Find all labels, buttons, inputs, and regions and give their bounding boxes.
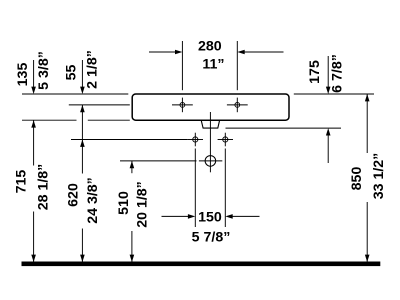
washbasin outline xyxy=(132,94,289,120)
svg-text:20 1/8”: 20 1/8” xyxy=(135,181,151,228)
svg-text:510: 510 xyxy=(116,191,132,215)
dimension 150 bottom xyxy=(162,215,189,217)
extension line fixing holes xyxy=(71,139,188,141)
fixing hole right xyxy=(218,139,233,141)
svg-text:55: 55 xyxy=(64,65,80,81)
svg-text:175: 175 xyxy=(307,60,323,84)
svg-text:5 3/8”: 5 3/8” xyxy=(36,51,52,90)
svg-text:28 1/8”: 28 1/8” xyxy=(36,164,52,211)
extension line basin top right xyxy=(294,93,374,95)
svg-text:5 7/8”: 5 7/8” xyxy=(192,230,231,246)
drain centerline xyxy=(209,112,211,172)
dimension 620 line xyxy=(81,105,83,174)
dimension 280 extension lines xyxy=(181,41,183,90)
svg-text:715: 715 xyxy=(14,170,30,194)
dimension 55 upper leader xyxy=(81,60,83,87)
svg-text:620: 620 xyxy=(66,183,82,207)
svg-text:150: 150 xyxy=(198,210,222,226)
svg-text:33 1/2”: 33 1/2” xyxy=(371,153,387,200)
drain circle xyxy=(205,156,216,167)
svg-text:6 7/8”: 6 7/8” xyxy=(330,54,346,93)
svg-text:850: 850 xyxy=(349,167,365,191)
extension line basin bottom left xyxy=(22,119,77,121)
svg-text:2 1/8”: 2 1/8” xyxy=(85,50,101,89)
svg-text:135: 135 xyxy=(15,63,31,87)
dimension 135 upper leader xyxy=(33,60,35,87)
fixing hole left xyxy=(188,139,203,141)
faucet hole crosshair right xyxy=(227,104,248,106)
faucet hole crosshair left xyxy=(172,104,193,106)
extension lines below fixing holes for 150 dim xyxy=(194,149,196,228)
dimension 175 right xyxy=(327,56,329,87)
extension line basin top left xyxy=(22,93,128,95)
floor line xyxy=(22,262,380,266)
dimension 280 leaders and arrows xyxy=(149,51,175,53)
svg-text:280: 280 xyxy=(198,38,222,54)
dimension 715 line xyxy=(31,120,36,127)
svg-text:24 3/8”: 24 3/8” xyxy=(85,177,101,224)
dimension 850 line xyxy=(365,94,370,101)
extension line notch bottom right xyxy=(226,127,342,129)
extension line tap deck xyxy=(69,104,130,106)
dimension 510 line xyxy=(130,161,135,168)
extension line drain center xyxy=(120,160,197,162)
drain circle crosshair xyxy=(199,160,222,162)
svg-text:11”: 11” xyxy=(202,56,224,72)
drain tailpiece notch xyxy=(201,120,219,128)
